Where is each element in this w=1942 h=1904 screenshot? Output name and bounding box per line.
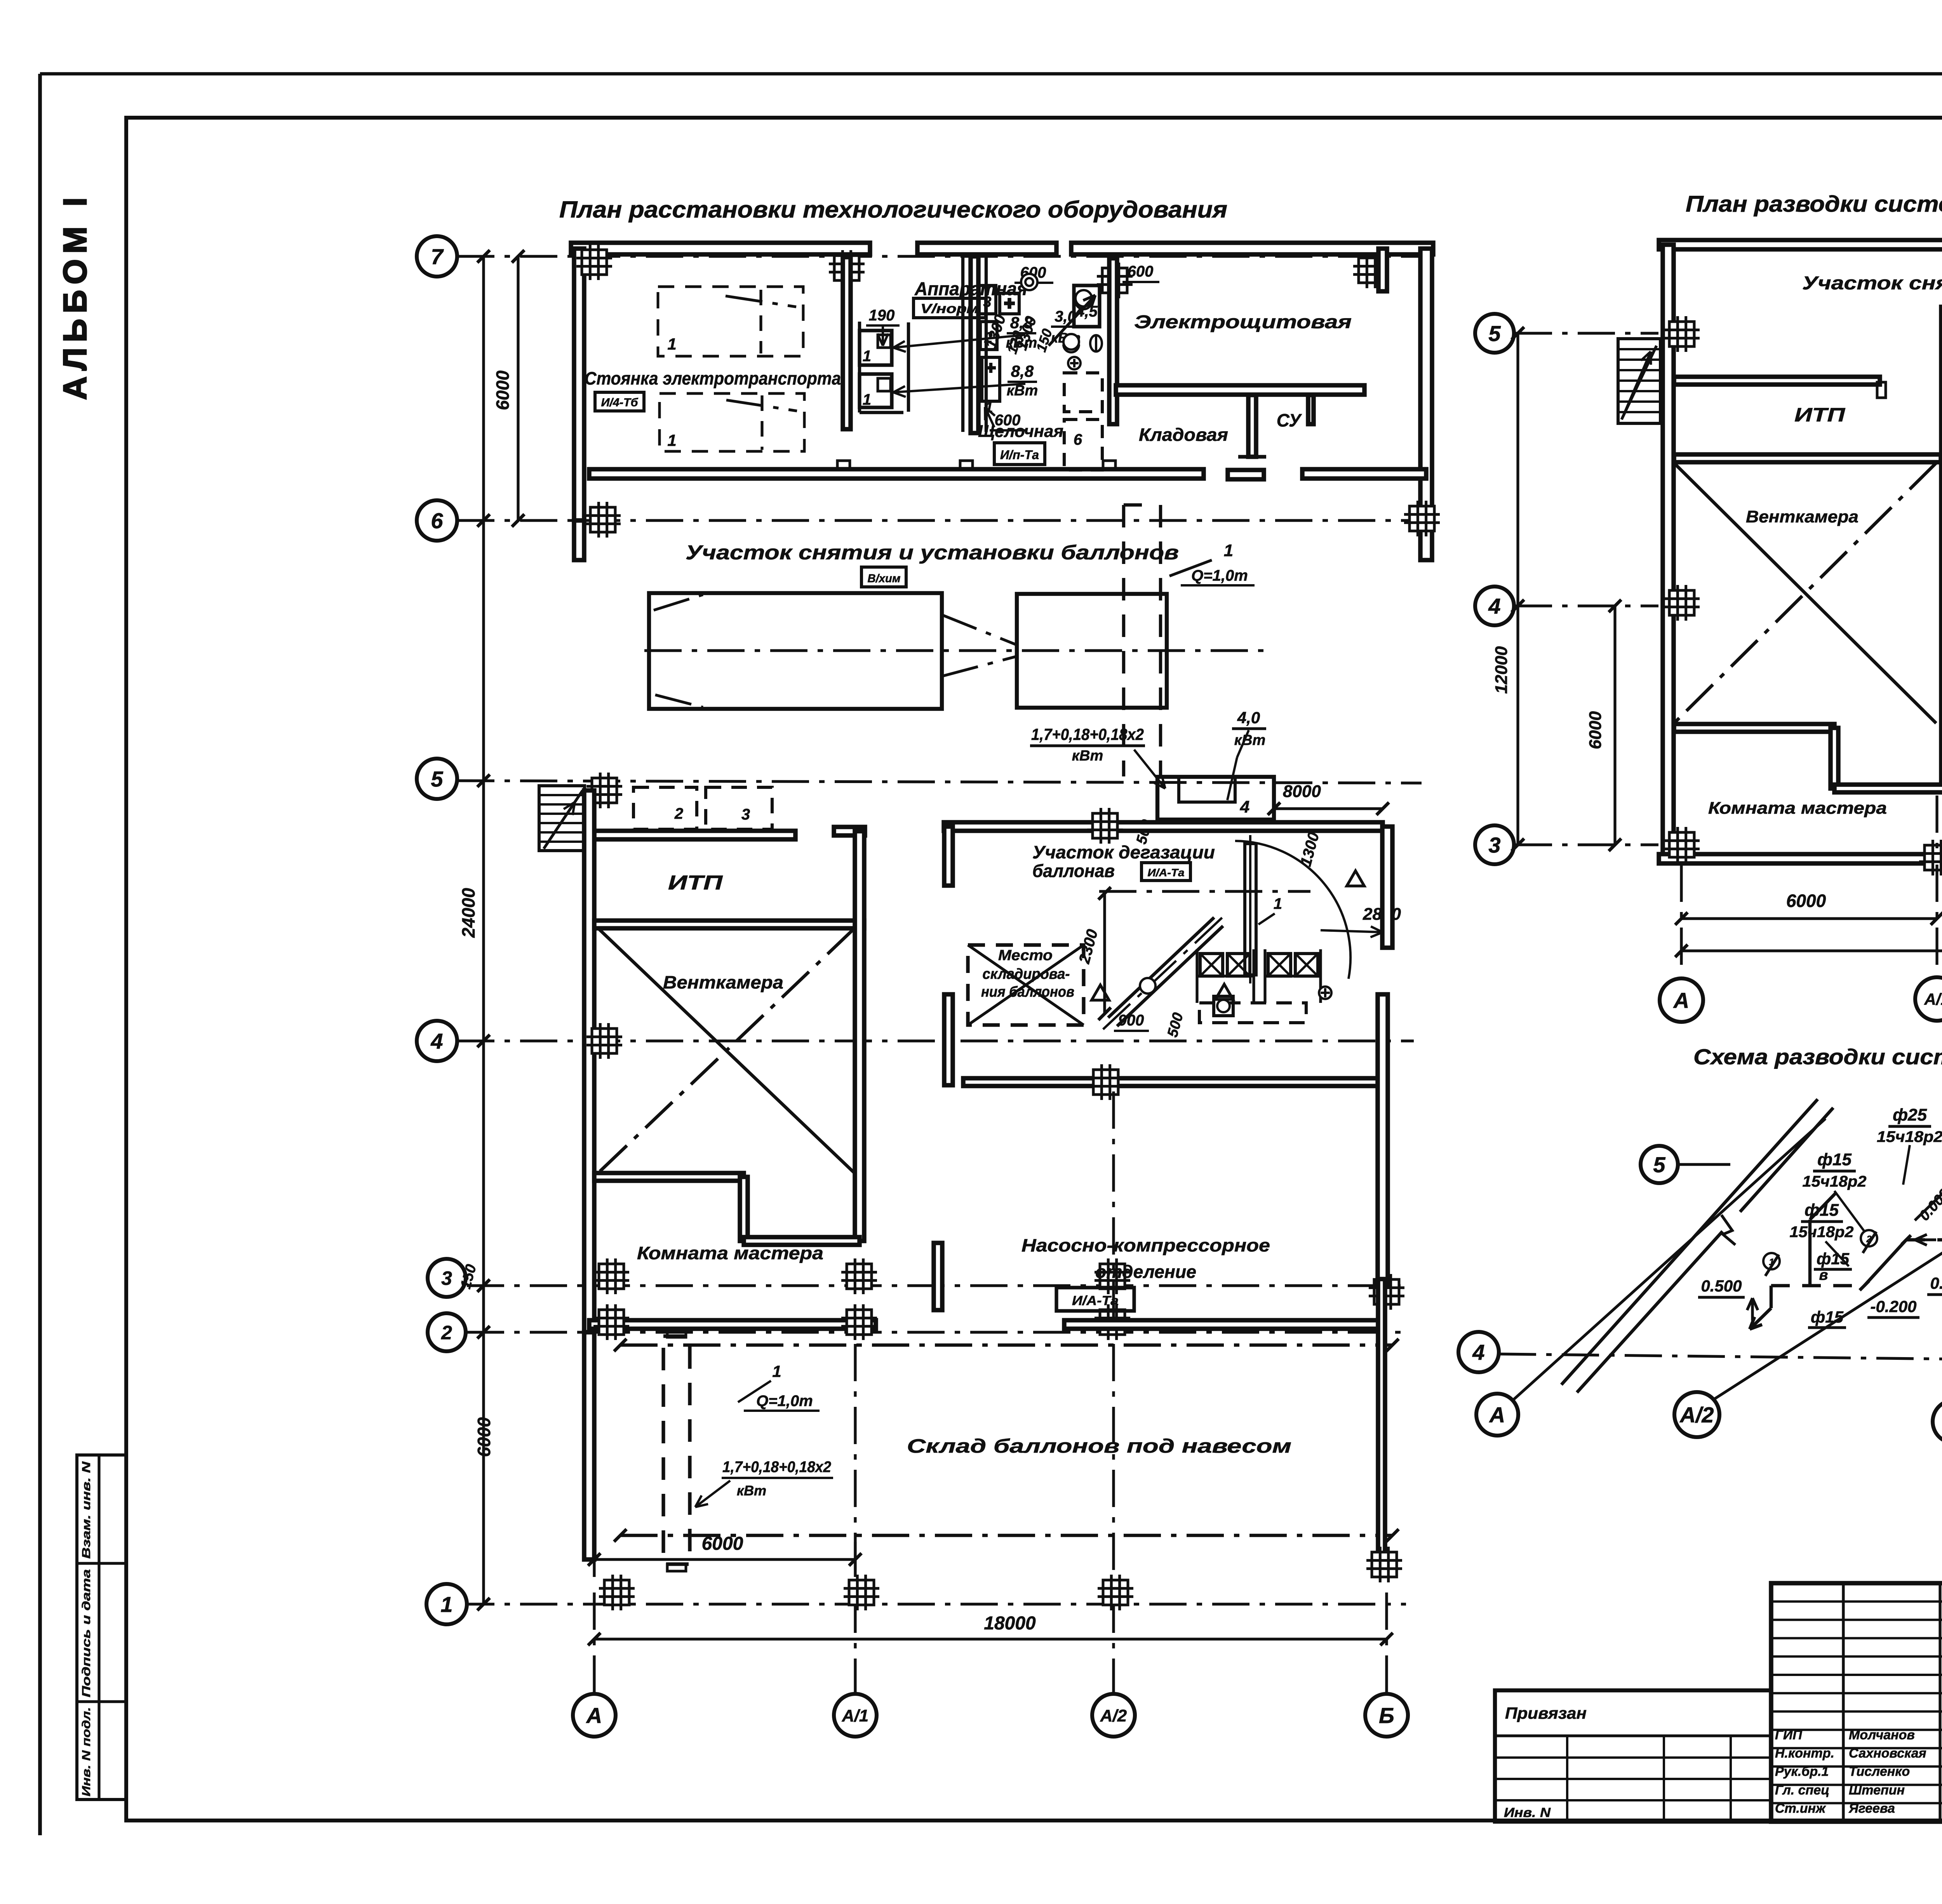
alkaline equip 2 xyxy=(980,322,997,350)
svg-text:1,7+0,18+0,18х2: 1,7+0,18+0,18х2 xyxy=(722,1458,831,1476)
svg-text:А: А xyxy=(586,1703,602,1728)
svg-text:1,7+0,18+0,18х2: 1,7+0,18+0,18х2 xyxy=(1031,725,1144,743)
stairs right plan xyxy=(1618,339,1660,423)
svg-text:ф25: ф25 xyxy=(1893,1105,1927,1124)
column A x5 xyxy=(586,773,622,808)
axono label leaders xyxy=(1834,1191,1864,1231)
svg-text:4: 4 xyxy=(1240,797,1249,816)
top wall axis 7 xyxy=(571,243,870,254)
axono circle A2 xyxy=(1674,1392,1719,1437)
dim 6000 right bottom xyxy=(1681,917,1937,920)
svg-text:кВт: кВт xyxy=(1234,732,1266,748)
dashed duct vertical xyxy=(1122,505,1125,776)
svg-text:ния баллонов: ния баллонов xyxy=(981,984,1074,1000)
svg-text:5: 5 xyxy=(431,767,443,791)
svg-text:900: 900 xyxy=(1118,1012,1144,1029)
storage place dashed box xyxy=(968,945,1084,1025)
axis A2 vertical pump room xyxy=(1112,1091,1115,1319)
left attach table xyxy=(1495,1690,1771,1822)
axis 5 xyxy=(457,781,1422,783)
svg-text:кВт: кВт xyxy=(737,1483,766,1498)
sink symbols alkaline xyxy=(1021,274,1037,290)
svg-text:Гл. спец: Гл. спец xyxy=(1775,1783,1829,1798)
plus circle xyxy=(1068,357,1081,369)
shed right wall xyxy=(1378,1279,1385,1554)
axis B xyxy=(1385,1592,1388,1693)
axis 3 xyxy=(467,1284,1406,1287)
column A1 x7 xyxy=(829,250,865,286)
svg-text:2: 2 xyxy=(441,1322,452,1344)
svg-text:Насосно-компрессорное: Насосно-компрессорное xyxy=(1021,1235,1270,1255)
dim 18000 right bottom xyxy=(1681,949,1942,952)
svg-text:Венткамера: Венткамера xyxy=(663,972,783,992)
svg-text:Участок дегазации: Участок дегазации xyxy=(1032,842,1215,862)
svg-text:5: 5 xyxy=(1488,321,1501,346)
cross box xyxy=(1000,293,1019,314)
class box pump xyxy=(1056,1288,1134,1311)
plus circle right xyxy=(1319,987,1331,999)
left wall mid xyxy=(584,790,594,1332)
title block main table xyxy=(1771,1583,1942,1822)
columns axes 3/2 row xyxy=(593,1304,629,1340)
equip stand apparatus xyxy=(858,322,861,412)
electro room bottom wall xyxy=(1116,385,1364,395)
right plan left wall xyxy=(1663,245,1674,859)
svg-text:ф15: ф15 xyxy=(1811,1308,1844,1326)
axono circle A xyxy=(1476,1394,1518,1436)
column B x7 xyxy=(1353,252,1389,288)
middle block bottom wall xyxy=(963,1078,1383,1086)
axis A/2 xyxy=(1112,1344,1115,1693)
svg-text:1: 1 xyxy=(1224,541,1233,560)
svg-text:1: 1 xyxy=(863,348,871,365)
axis 7 xyxy=(457,255,1433,258)
svg-text:2: 2 xyxy=(984,330,992,346)
axono circle 5 xyxy=(1641,1146,1678,1183)
svg-text:И/А-Та: И/А-Та xyxy=(1148,867,1185,879)
interior wall 1 left part xyxy=(1674,377,1880,385)
svg-text:4: 4 xyxy=(1472,1340,1484,1364)
svg-text:Участок снятия и установки: Участок снятия и установки баллонов xyxy=(1802,273,1942,294)
small square with circle xyxy=(1214,996,1233,1016)
vehicle rect B xyxy=(1017,594,1167,708)
svg-text:ф15: ф15 xyxy=(1817,1150,1852,1169)
svg-text:0.500: 0.500 xyxy=(1701,1277,1742,1295)
svg-text:отделение: отделение xyxy=(1095,1262,1196,1282)
axis A1 vertical right plan xyxy=(1935,795,1938,855)
svg-text:8000: 8000 xyxy=(1283,782,1321,801)
svg-text:ИТП: ИТП xyxy=(1794,404,1845,426)
svg-text:Q=1,0т: Q=1,0т xyxy=(756,1392,813,1410)
col left x5 xyxy=(1664,316,1700,352)
axono pipes xyxy=(1771,1284,1864,1287)
axis 3 right xyxy=(1515,843,1658,846)
axis 4 xyxy=(457,1039,1414,1042)
door tabs on wall xyxy=(837,461,850,469)
svg-text:А: А xyxy=(1673,988,1689,1013)
svg-text:ГИП: ГИП xyxy=(1775,1728,1803,1742)
outer border xyxy=(38,74,42,1835)
svg-text:кВт: кВт xyxy=(1072,748,1103,764)
bottom wall left block xyxy=(1659,854,1942,863)
svg-text:Подпись и дата: Подпись и дата xyxy=(80,1569,93,1697)
dim 6000 bottom xyxy=(594,1558,855,1561)
tall equip bar xyxy=(1245,844,1256,975)
svg-text:А/1: А/1 xyxy=(842,1706,868,1725)
svg-text:600: 600 xyxy=(1128,263,1154,280)
dim 12000 right plan xyxy=(1516,333,1519,845)
svg-text:в: в xyxy=(1819,1267,1828,1283)
ventkamera right room xyxy=(1674,454,1941,462)
axis 2 xyxy=(467,1331,1406,1333)
left wall top band xyxy=(574,249,584,520)
svg-text:-0.200: -0.200 xyxy=(1870,1297,1916,1316)
svg-text:Инв. N: Инв. N xyxy=(1504,1805,1551,1820)
dim 18000 bottom xyxy=(594,1638,1387,1640)
svg-text:15ч18р2: 15ч18р2 xyxy=(1803,1173,1867,1190)
svg-text:6000: 6000 xyxy=(1786,891,1826,911)
svg-text:4,0: 4,0 xyxy=(1237,708,1260,727)
svg-text:Щелочная: Щелочная xyxy=(978,422,1063,441)
svg-text:3: 3 xyxy=(741,806,750,823)
svg-text:Склад баллонов под навесом: Склад баллонов под навесом xyxy=(907,1435,1291,1457)
vehicle dashed 2 xyxy=(660,393,804,451)
svg-text:6000: 6000 xyxy=(492,370,513,410)
corridor wall piece xyxy=(944,994,953,1085)
svg-text:3: 3 xyxy=(1488,833,1500,857)
column A x6 xyxy=(585,502,621,538)
triangles xyxy=(1091,985,1109,1000)
column A x7 xyxy=(576,244,612,280)
vehicle dashed 1 xyxy=(658,287,803,356)
partition apparatus room left xyxy=(843,257,851,429)
pump group 2 xyxy=(1268,954,1291,976)
svg-text:ф15: ф15 xyxy=(1817,1250,1850,1268)
svg-text:В/хим: В/хим xyxy=(868,572,901,585)
svg-text:190: 190 xyxy=(869,307,895,324)
svg-text:6: 6 xyxy=(431,508,443,533)
svg-text:8,8: 8,8 xyxy=(1011,362,1034,380)
svg-text:4: 4 xyxy=(1488,594,1500,618)
bottom wall pump room xyxy=(1064,1320,1383,1329)
ventkamera step bottom xyxy=(594,1173,744,1181)
svg-text:0.500: 0.500 xyxy=(1930,1274,1942,1292)
pump dashed outline xyxy=(1199,1003,1306,1023)
conveyor diagonal xyxy=(1108,917,1214,1018)
vert dim 2300 xyxy=(1103,893,1106,1014)
right wall mid xyxy=(1382,827,1392,948)
svg-text:24000: 24000 xyxy=(458,888,479,938)
vehicle axis line xyxy=(644,649,1273,652)
svg-text:И/п-Та: И/п-Та xyxy=(1000,448,1039,462)
svg-text:А/2: А/2 xyxy=(1100,1706,1127,1725)
parking class box xyxy=(595,392,644,411)
corridor walls xyxy=(934,1243,942,1310)
alkaline equip 3 xyxy=(979,285,996,314)
ITP top wall xyxy=(594,831,795,839)
SU stub xyxy=(1308,395,1314,424)
vehicle rect A xyxy=(649,593,942,709)
middle block col on wall xyxy=(1087,808,1123,844)
svg-text:Штепин: Штепин xyxy=(1849,1783,1905,1798)
left wall lower xyxy=(574,520,584,560)
svg-text:Н.контр.: Н.контр. xyxy=(1775,1746,1834,1761)
equip 3 dashed xyxy=(706,787,772,829)
SU divider xyxy=(1248,395,1256,457)
svg-text:Ягеева: Ягеева xyxy=(1848,1801,1895,1816)
svg-text:Кладовая: Кладовая xyxy=(1139,425,1228,445)
svg-text:складирова-: складирова- xyxy=(983,966,1070,982)
dim chain 24000 xyxy=(482,256,485,1604)
axono circle B xyxy=(1933,1400,1942,1443)
equip 2 dashed xyxy=(633,787,697,829)
svg-text:А/2: А/2 xyxy=(1679,1403,1714,1427)
svg-text:Аппаратная: Аппаратная xyxy=(914,279,1027,299)
right plan top wall xyxy=(1659,240,1942,249)
svg-text:1: 1 xyxy=(440,1592,452,1617)
col A1 bottom xyxy=(1919,840,1942,875)
svg-text:Q=1,0т: Q=1,0т xyxy=(1191,567,1248,584)
axono rail 1 xyxy=(1577,1231,1723,1392)
svg-text:ф15: ф15 xyxy=(1805,1201,1839,1220)
svg-text:И/А-Та: И/А-Та xyxy=(1072,1293,1119,1308)
left wall end piece xyxy=(584,1332,594,1559)
svg-text:Тисленко: Тисленко xyxy=(1849,1764,1910,1779)
svg-text:6000: 6000 xyxy=(1586,711,1605,749)
svg-text:Привязан: Привязан xyxy=(1505,1704,1587,1722)
svg-text:Сахновская: Сахновская xyxy=(1849,1746,1926,1761)
svg-text:Венткамера: Венткамера xyxy=(1746,507,1858,526)
rail break marks xyxy=(1721,1215,1735,1245)
right wall top band xyxy=(1420,249,1432,560)
partition apparatus/alkaline xyxy=(971,256,978,433)
svg-text:1: 1 xyxy=(772,1362,781,1380)
axis 4 right xyxy=(1515,604,1658,607)
svg-text:Место: Место xyxy=(998,947,1053,964)
axis 5 right xyxy=(1515,332,1658,334)
columns axis 1 xyxy=(599,1575,635,1610)
svg-text:Рук.бр.1: Рук.бр.1 xyxy=(1775,1764,1829,1779)
axis 6 xyxy=(457,519,1433,522)
svg-text:4,5: 4,5 xyxy=(1075,303,1098,320)
class box degassing xyxy=(1142,863,1190,881)
axono valves xyxy=(1763,1253,1780,1269)
alkaline class box xyxy=(994,443,1045,465)
svg-text:1: 1 xyxy=(863,391,871,408)
svg-text:АЛЬБОМ I: АЛЬБОМ I xyxy=(57,192,93,400)
svg-text:Схема разводки системы трубоп: Схема разводки системы трубопроводов сжа… xyxy=(1693,1044,1942,1069)
column A2 x7 xyxy=(1097,263,1133,298)
svg-text:А: А xyxy=(1489,1403,1505,1427)
top band step wall xyxy=(1378,249,1387,291)
stairs left plan xyxy=(539,786,585,851)
svg-text:15ч18р2: 15ч18р2 xyxy=(1790,1224,1854,1241)
ventkamera X cross xyxy=(598,928,854,1173)
pump group 1 xyxy=(1200,954,1223,976)
alkaline equip 1 tall xyxy=(982,357,1000,401)
svg-text:СУ: СУ xyxy=(1277,410,1302,430)
svg-text:2: 2 xyxy=(674,805,683,822)
axono rail 2 xyxy=(1561,1099,1818,1385)
sink pair xyxy=(1063,334,1079,350)
bottom wall komnata xyxy=(589,1320,876,1329)
alkaline right wall xyxy=(1109,258,1117,424)
svg-text:Взам. инв. N: Взам. инв. N xyxy=(80,1461,93,1559)
equip 6 dashed boxes xyxy=(1064,373,1102,412)
column B x6 xyxy=(1404,501,1440,536)
svg-text:6000: 6000 xyxy=(474,1417,494,1457)
svg-text:7: 7 xyxy=(431,244,444,269)
col left x3 xyxy=(1664,827,1700,863)
shed canopy line top xyxy=(620,1344,1392,1347)
class box v-him xyxy=(861,567,906,587)
svg-text:12000: 12000 xyxy=(1492,646,1511,694)
svg-text:Стоянка электротранспорта: Стоянка электротранспорта xyxy=(585,368,841,388)
ventkamera room xyxy=(594,921,864,928)
svg-text:А/1: А/1 xyxy=(1924,990,1942,1008)
svg-text:Электрощитовая: Электрощитовая xyxy=(1134,312,1352,332)
interior wall y1220 xyxy=(589,469,1204,479)
svg-text:5: 5 xyxy=(1653,1152,1665,1177)
svg-text:15ч18р2: 15ч18р2 xyxy=(1877,1128,1942,1145)
dim 6000 axes 7-6 xyxy=(517,256,519,520)
svg-text:3: 3 xyxy=(983,294,991,310)
column A x4 xyxy=(586,1023,622,1059)
svg-text:ИТП: ИТП xyxy=(668,872,723,894)
svg-text:И/4-Тб: И/4-Тб xyxy=(601,396,639,409)
svg-text:3: 3 xyxy=(441,1267,452,1289)
dim 6000 right plan xyxy=(1613,606,1616,845)
axono junction ticks xyxy=(1860,1281,1869,1290)
equip 4,5 box xyxy=(1074,285,1100,327)
dashed duct shed xyxy=(663,1336,690,1564)
converging lines xyxy=(942,615,1016,645)
axis 1 xyxy=(457,1603,1406,1605)
middle block top wall xyxy=(944,822,1383,831)
svg-text:План разводки системы трубоп: План разводки системы трубопроводов сжат… xyxy=(1686,191,1942,217)
svg-text:V/норм: V/норм xyxy=(921,301,979,316)
svg-text:4: 4 xyxy=(430,1029,443,1053)
axis A/1 xyxy=(854,1344,856,1693)
svg-text:Молчанов: Молчанов xyxy=(1849,1728,1915,1742)
axono circle 4 xyxy=(1458,1332,1499,1372)
equip 4 heater xyxy=(1157,777,1274,820)
dash-dot equip axis xyxy=(1099,890,1310,893)
svg-text:Комната мастера: Комната мастера xyxy=(1708,799,1887,818)
left stamp strip xyxy=(77,1455,126,1800)
svg-text:1: 1 xyxy=(1274,895,1282,912)
svg-text:18000: 18000 xyxy=(984,1613,1036,1634)
svg-text:Инв. N подл.: Инв. N подл. xyxy=(80,1707,93,1796)
right plan bottom axes xyxy=(1680,865,1683,973)
svg-text:1: 1 xyxy=(667,335,676,353)
svg-text:1: 1 xyxy=(667,431,676,449)
svg-text:План расстановки технологическ: План расстановки технологического оборуд… xyxy=(559,197,1227,223)
norm box xyxy=(914,298,986,318)
svg-text:Ст.инж: Ст.инж xyxy=(1775,1801,1826,1816)
svg-text:6: 6 xyxy=(1074,431,1082,448)
svg-text:Комната мастера: Комната мастера xyxy=(637,1243,823,1263)
col mid bottom xyxy=(1088,1064,1124,1100)
col left x4 xyxy=(1664,585,1700,621)
axis A xyxy=(593,1592,595,1693)
svg-text:Участок снятия и установки: Участок снятия и установки баллонов xyxy=(686,541,1179,564)
middle left wall xyxy=(944,827,953,886)
svg-text:баллонав: баллонав xyxy=(1032,861,1115,881)
svg-text:Б: Б xyxy=(1379,1703,1394,1728)
shed canopy line bottom xyxy=(620,1534,1392,1537)
